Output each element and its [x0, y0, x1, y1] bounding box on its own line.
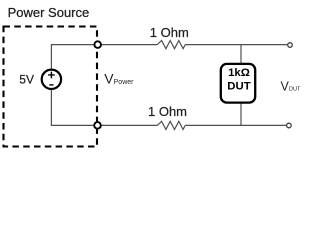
svg-text:VPower: VPower	[104, 71, 134, 87]
svg-text:5V: 5V	[19, 73, 34, 87]
svg-text:1 Ohm: 1 Ohm	[150, 25, 189, 40]
svg-text:1kΩ: 1kΩ	[228, 67, 250, 79]
svg-text:1 Ohm: 1 Ohm	[148, 104, 187, 119]
svg-text:Power Source: Power Source	[8, 5, 90, 20]
svg-text:VDUT: VDUT	[281, 79, 302, 93]
svg-text:DUT: DUT	[227, 81, 250, 93]
